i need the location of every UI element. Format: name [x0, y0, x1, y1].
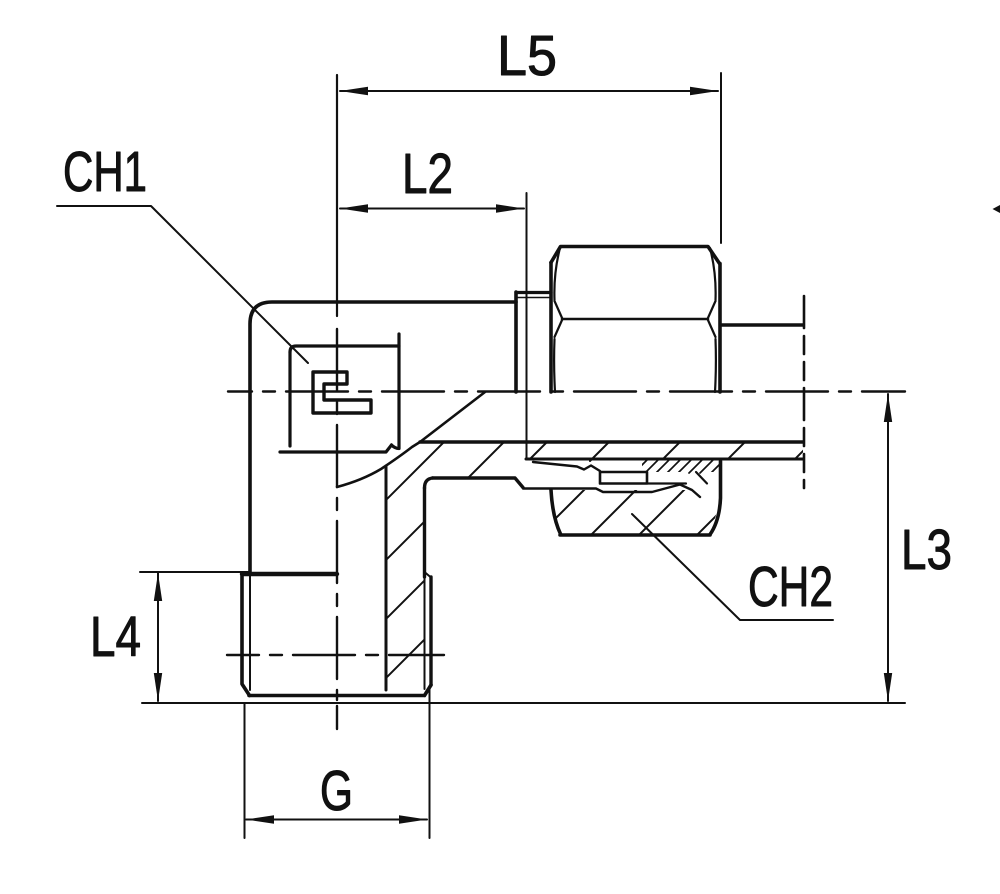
dimension G: [245, 688, 430, 838]
nut hex edge: [562, 318, 708, 321]
extension line bottom shared L3 L4: [142, 702, 905, 704]
bore wall horizontal branch: [420, 440, 803, 443]
tube outer wall lower: [526, 458, 803, 461]
stud thread root left: [249, 576, 251, 690]
nut hex arcs left: [554, 248, 562, 392]
stud thread crest right: [429, 577, 432, 685]
hatching body section: [384, 436, 650, 726]
svg-text:G: G: [320, 759, 353, 823]
centerline vertical axis: [336, 75, 338, 316]
dimension L3: [884, 394, 892, 701]
tube break line: [803, 296, 806, 488]
body lower face step: [433, 478, 524, 488]
body elbow block outline: [250, 302, 516, 574]
body outer corner arc: [425, 478, 433, 488]
edge mark right margin: [993, 205, 1000, 213]
leader CH2: [632, 514, 833, 620]
svg-text:L2: L2: [402, 142, 453, 206]
hatching tube wall: [528, 440, 814, 461]
svg-text:L3: L3: [901, 518, 952, 582]
svg-text:CH1: CH1: [63, 140, 147, 204]
nut hex arcs right: [708, 248, 716, 392]
body bottom face: [242, 572, 337, 576]
bore wall vertical branch: [385, 466, 388, 690]
centerline stud short: [227, 654, 444, 656]
svg-text:L5: L5: [497, 24, 557, 88]
centerline horizontal axis: [228, 390, 905, 392]
nut internal collar steps: [523, 485, 700, 498]
dimension L2: [340, 193, 527, 459]
svg-text:CH2: CH2: [748, 555, 833, 619]
dimension L4: [140, 572, 249, 701]
dimension L5: [340, 73, 721, 243]
hatching cutting ring: [634, 459, 725, 473]
wrench square CH1 pocket: [280, 334, 399, 452]
stud thread runout connector: [425, 572, 432, 578]
stud bottom: [249, 685, 431, 696]
body thread boss root line: [516, 297, 551, 299]
cutting ring rear collar: [648, 472, 707, 484]
break-out section curve: [337, 392, 485, 487]
stud thread root right: [424, 577, 426, 689]
nut outline upper half: [551, 247, 720, 393]
body right face: [514, 292, 518, 392]
leader CH1: [57, 206, 308, 363]
stud outer wall sectioned: [423, 488, 426, 577]
cutting ring nose: [533, 462, 600, 471]
tube top edge: [722, 323, 803, 326]
svg-text:L4: L4: [90, 605, 141, 669]
hatching nut section: [534, 434, 798, 540]
cutting ring mid band: [600, 472, 647, 484]
wrench square symbol: [313, 372, 371, 413]
stud male thread left: [242, 574, 250, 696]
body thread boss top: [516, 291, 551, 294]
nut outline sectioned lower half: [551, 461, 721, 535]
